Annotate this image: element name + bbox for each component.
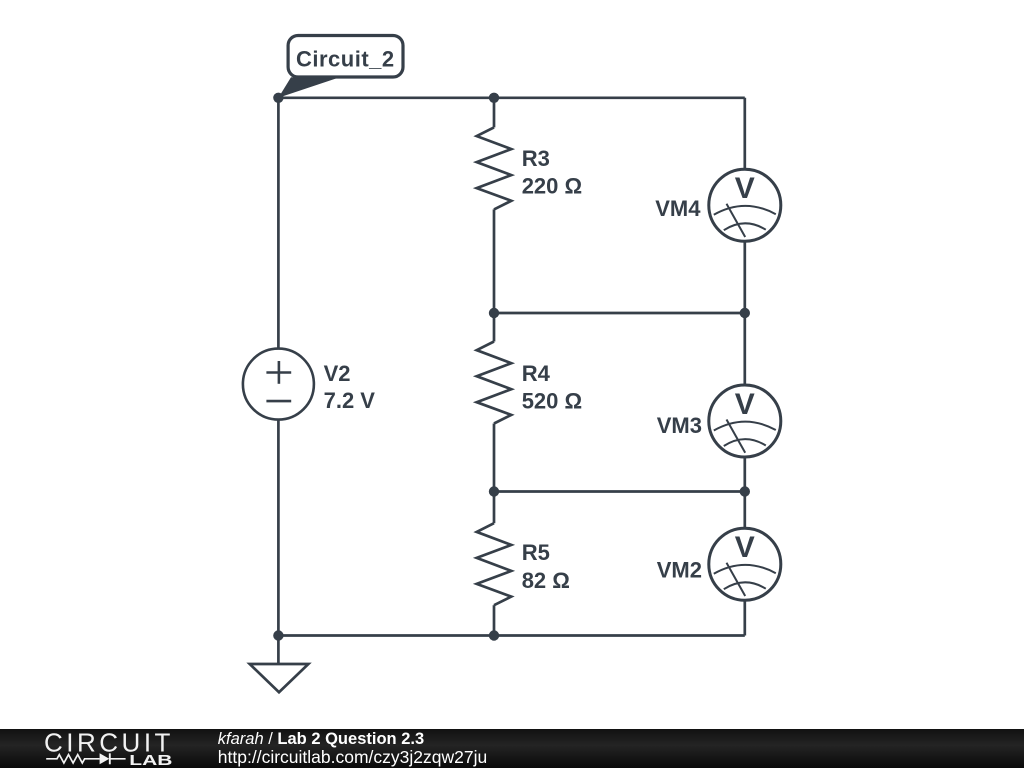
resistor R4 [477,342,512,424]
svg-text:220 Ω: 220 Ω [522,173,582,198]
footer bar [0,729,1024,768]
wire top horizontal [278,96,744,99]
label VM4 [655,196,701,221]
label VM2 [657,558,702,583]
voltage source V2 [243,349,314,420]
wire row2 horizontal [494,312,745,315]
voltmeter VM3 [709,385,781,457]
label R4 value [522,361,582,414]
net label Circuit_2 callout [278,36,403,98]
label VM3 [657,413,702,438]
wire left vertical [277,98,280,636]
voltmeter VM4 [709,169,781,241]
svg-text:82 Ω: 82 Ω [522,568,570,593]
svg-text:VM4: VM4 [655,196,701,221]
voltmeter VM2 [709,528,781,600]
node junction row3 right [740,486,750,496]
label V2 value [324,361,376,413]
wire right vertical [743,98,746,636]
node junction bottom-left [273,630,283,640]
svg-text:Circuit_2: Circuit_2 [296,47,395,72]
node junction row2 right [740,308,750,318]
label R3 value [522,146,582,199]
resistor R5 [477,523,512,605]
node junction top-left [273,93,283,103]
svg-text:7.2 V: 7.2 V [324,388,376,413]
wire row3 horizontal [494,490,745,493]
wire middle column leads [493,98,496,636]
svg-text:VM2: VM2 [657,558,702,583]
svg-text:520 Ω: 520 Ω [522,388,582,413]
svg-text:LAB: LAB [129,752,172,768]
node junction row2 middle [489,308,499,318]
wire bottom horizontal [278,634,744,637]
svg-text:kfarah / Lab 2 Question 2.3: kfarah / Lab 2 Question 2.3 [218,730,424,748]
svg-text:VM3: VM3 [657,413,702,438]
svg-text:R3: R3 [522,146,550,171]
footer logo LAB [129,752,172,768]
svg-text:V2: V2 [324,361,351,386]
svg-text:http://circuitlab.com/czy3j2zq: http://circuitlab.com/czy3j2zqw27ju [218,747,487,767]
node junction row3 middle [489,486,499,496]
resistor R3 [477,127,512,209]
svg-text:R5: R5 [522,540,550,565]
node junction bottom-middle [489,630,499,640]
ground [250,636,309,693]
node junction top-middle [489,93,499,103]
footer logo CIRCUIT [44,728,174,758]
footer logo resistor-diode squiggle [46,753,125,764]
footer url text [218,747,487,767]
footer title text [218,730,424,748]
svg-text:R4: R4 [522,361,551,386]
label R5 value [522,540,570,593]
